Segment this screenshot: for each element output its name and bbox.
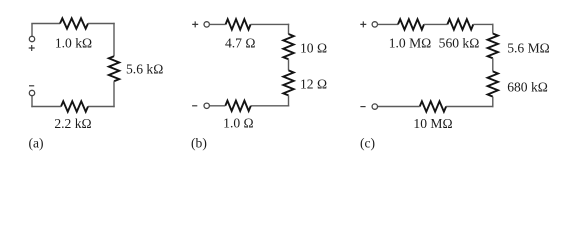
resistor 10 MOhm (circuit c, bottom) xyxy=(420,101,446,111)
terminal: circuit (a) positive (top) xyxy=(29,36,34,41)
wire: circuit (c) bottom segment right of R 10M xyxy=(446,106,493,108)
resistor 4.7 Ohm (circuit b, top) xyxy=(226,19,251,29)
svg-text:5.6 kΩ: 5.6 kΩ xyxy=(126,61,163,76)
resistor 1.0 Ohm (circuit b, bottom) xyxy=(225,101,251,111)
plus sign (circuit a) xyxy=(29,45,35,51)
wire: circuit (c) right rail between resistors xyxy=(492,58,494,71)
svg-text:1.0 Ω: 1.0 Ω xyxy=(223,115,254,130)
wire: circuit (b) right rail below R 12 xyxy=(288,95,290,106)
svg-text:560 kΩ: 560 kΩ xyxy=(439,36,480,51)
terminal: circuit (b) negative xyxy=(204,103,209,108)
resistor 2.2 kOhm (circuit a, bottom) xyxy=(61,101,88,111)
wire: circuit (a) top-left stub xyxy=(31,24,33,37)
wire: circuit (b) bottom segment left of R 1.0 xyxy=(209,105,225,107)
wire: circuit (a) right rail lower xyxy=(113,81,115,107)
wire: circuit (a) bottom segment right of R 2.2k xyxy=(88,106,115,108)
terminal: circuit (a) negative (bottom) xyxy=(29,90,34,95)
wire: circuit (c) right rail above R 5.6M xyxy=(492,24,494,34)
resistor 1.0 kOhm (circuit a, top) xyxy=(60,18,88,28)
terminal: circuit (b) positive xyxy=(204,22,209,27)
minus sign (circuit a) xyxy=(29,85,34,87)
wire: circuit (c) top segment left of R 1.0M xyxy=(378,23,399,25)
wire: circuit (a) right rail upper xyxy=(113,23,115,56)
resistor 680 kOhm (circuit c, right rail lower) xyxy=(488,71,498,96)
svg-text:(a): (a) xyxy=(29,135,44,151)
terminal: circuit (c) positive xyxy=(372,22,377,27)
svg-text:(b): (b) xyxy=(191,135,207,151)
resistor 10 Ohm (circuit b, right rail upper) xyxy=(283,34,293,59)
terminal: circuit (c) negative xyxy=(372,104,377,109)
svg-text:680 kΩ: 680 kΩ xyxy=(507,80,548,95)
wire: circuit (a) bottom-left stub xyxy=(31,96,33,108)
plus sign (circuit b) xyxy=(192,21,198,27)
svg-text:10 MΩ: 10 MΩ xyxy=(413,116,452,131)
resistor 1.0 MOhm (circuit c, top left) xyxy=(398,19,424,29)
svg-text:1.0 MΩ: 1.0 MΩ xyxy=(389,36,432,51)
svg-text:5.6 MΩ: 5.6 MΩ xyxy=(507,41,550,56)
svg-text:10 Ω: 10 Ω xyxy=(300,41,327,56)
wire: circuit (c) top segment between R 1.0M and R 560k xyxy=(424,23,447,25)
wire: circuit (a) bottom segment left of R 2.2k xyxy=(31,106,61,108)
minus sign (circuit c) xyxy=(360,106,365,108)
resistor 12 Ohm (circuit b, right rail lower) xyxy=(283,70,293,95)
wire: circuit (b) right rail above R 10 xyxy=(288,24,290,34)
wire: circuit (b) right rail between R 10 and R 12 xyxy=(288,59,290,70)
plus sign (circuit c) xyxy=(360,21,366,27)
wire: circuit (a) top segment left of R 1.0k xyxy=(31,23,60,25)
wire: circuit (b) top segment right of R 4.7 xyxy=(251,23,290,25)
wire: circuit (c) top segment right of R 560k xyxy=(473,23,493,25)
wire: circuit (b) bottom segment right of R 1.0 xyxy=(251,105,289,107)
wire: circuit (a) top segment right of R 1.0k xyxy=(88,23,115,25)
wire: circuit (c) bottom segment left of R 10M xyxy=(378,106,420,108)
svg-text:(c): (c) xyxy=(360,135,375,151)
wire: circuit (c) right rail below R 680k xyxy=(492,97,494,108)
svg-text:1.0 kΩ: 1.0 kΩ xyxy=(55,36,92,51)
svg-text:2.2 kΩ: 2.2 kΩ xyxy=(54,116,91,131)
resistor 5.6 MOhm (circuit c, right rail upper) xyxy=(488,34,498,59)
svg-text:4.7 Ω: 4.7 Ω xyxy=(225,35,256,50)
minus sign (circuit b) xyxy=(192,105,197,107)
resistor 5.6 kOhm (circuit a, right rail) xyxy=(109,56,119,81)
svg-text:12 Ω: 12 Ω xyxy=(300,77,327,92)
wire: circuit (b) top segment left of R 4.7 xyxy=(209,23,225,25)
resistor 560 kOhm (circuit c, top right) xyxy=(447,19,473,29)
